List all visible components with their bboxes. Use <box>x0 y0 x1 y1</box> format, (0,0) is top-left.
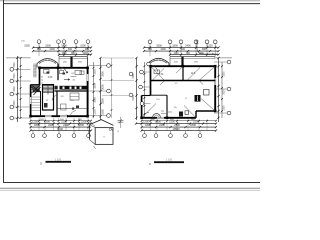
left plan porch glazing line <box>59 57 88 59</box>
svg-text:3300: 3300 <box>14 100 16 106</box>
svg-text:1800: 1800 <box>61 45 67 48</box>
left plan column 4 <box>29 115 32 118</box>
right plan left axis bubble 2 <box>139 85 143 89</box>
right plan right wall window gap <box>214 78 217 85</box>
svg-text:3000: 3000 <box>224 89 226 95</box>
right plan right axis bubble 1 <box>227 60 231 64</box>
left plan top axis bubble 3 <box>62 40 66 44</box>
left plan dark mark right of stair <box>55 86 58 90</box>
left plan bottom axis bubble 5 <box>87 134 91 138</box>
top-right leader annotation <box>197 40 218 55</box>
svg-text:1500: 1500 <box>94 69 97 75</box>
left plan small underline mark <box>71 76 77 78</box>
right plan top axis bubble 6 <box>213 40 217 44</box>
left plan bottom wall <box>31 115 88 117</box>
left plan interior wall vertical upper <box>57 64 59 80</box>
mid strip bubble B <box>129 93 133 97</box>
left plan column 2 <box>86 67 89 70</box>
svg-text:1200: 1200 <box>32 120 38 124</box>
mid strip leader 2 <box>102 95 134 97</box>
detail box front face <box>95 128 113 145</box>
right plan left step wall <box>142 95 151 97</box>
left plan column 6 <box>65 115 68 118</box>
right plan bottom axis bubble 2 <box>154 134 158 138</box>
svg-text:3.30: 3.30 <box>159 74 164 76</box>
right plan bottom-right wall <box>196 110 215 112</box>
svg-text:1500: 1500 <box>24 45 30 48</box>
detail box leader <box>89 121 95 126</box>
svg-text:3000: 3000 <box>94 97 97 103</box>
left plan fixture rect 2 <box>75 71 82 75</box>
right plan bottom wall window gap <box>157 117 164 120</box>
left plan table rect <box>70 93 79 100</box>
mid axis bubble 1 <box>107 64 111 68</box>
left plan column 5 <box>57 67 60 70</box>
svg-text:1500: 1500 <box>81 120 87 124</box>
svg-text:3000: 3000 <box>14 86 16 92</box>
svg-text:2400: 2400 <box>63 123 69 127</box>
right plan chimney dark rect <box>195 95 201 102</box>
svg-text:2400: 2400 <box>159 123 165 127</box>
left plan door arc middle <box>52 96 57 101</box>
svg-text:3300: 3300 <box>133 73 135 79</box>
left plan left axis bubble 1 <box>10 67 14 71</box>
right plan bottom axis bubble 4 <box>184 134 188 138</box>
left plan lower room balcony line <box>57 108 88 110</box>
left plan lower room dark dot <box>72 108 74 110</box>
right plan column 4 <box>214 110 217 113</box>
svg-text:1800: 1800 <box>145 123 151 127</box>
right plan column 1 <box>149 65 152 68</box>
small vdim near box <box>120 117 122 128</box>
left plan stair treads lower run <box>31 97 41 111</box>
svg-text:1200: 1200 <box>94 109 97 115</box>
frame bottom border <box>3 182 260 184</box>
right plan roof hip lines <box>142 66 216 118</box>
svg-text:1500: 1500 <box>14 62 16 68</box>
svg-text:900: 900 <box>85 48 90 51</box>
mid strip leader 3 <box>102 57 134 59</box>
left plan stairwell <box>43 85 54 110</box>
svg-text:2100: 2100 <box>169 120 175 124</box>
mid strip vertical line <box>111 58 113 118</box>
right plan bottom axis bubble 3 <box>169 134 173 138</box>
left plan bottom wall window gap 2 <box>60 115 67 118</box>
left plan ladder symbol rail 1 <box>33 64 35 78</box>
right plan top axis bubble 2 <box>168 40 172 44</box>
svg-text:1500: 1500 <box>44 120 50 124</box>
svg-text:1500: 1500 <box>155 120 161 124</box>
left plan right wall window gap <box>86 74 89 81</box>
mid axis bubble 3 <box>107 114 111 118</box>
left plan fixture rect 3 <box>44 70 50 74</box>
page bottom edge line 1 <box>0 187 260 189</box>
left plan top axis bubble 1 <box>37 40 41 44</box>
break symbol <box>118 119 124 123</box>
left plan top dim row 3 <box>59 54 91 56</box>
left plan north arrow mark <box>64 79 70 81</box>
svg-text:1800: 1800 <box>190 123 196 127</box>
right plan top dim row 2 <box>144 50 219 52</box>
right plan curved bay inner arc <box>150 60 167 63</box>
right plan arched door outer <box>153 114 161 118</box>
right plan corner axis bubble <box>147 62 151 66</box>
right plan right leader top <box>214 57 232 59</box>
right plan right dim line <box>218 58 220 122</box>
detail box foot tick <box>94 146 96 149</box>
left plan curved bay inner arc <box>39 60 56 63</box>
svg-text:1800: 1800 <box>172 45 178 48</box>
svg-text:9000: 9000 <box>57 127 63 131</box>
left plan winder stair fan fill <box>31 85 40 93</box>
mid dim line A <box>100 58 102 120</box>
right plan column 6 <box>166 117 169 120</box>
right plan interior wall vertical <box>182 66 184 80</box>
left plan top wall <box>40 67 88 69</box>
left plan bottom dim row 1 <box>29 123 92 125</box>
left plan lower room dark blob <box>76 106 79 109</box>
left plan left axis bubble 2 <box>10 79 14 83</box>
left plan small dark mark 1 <box>63 73 66 75</box>
right plan left dim line A <box>136 58 138 120</box>
right plan porch top edge <box>170 56 215 58</box>
right plan top axis bubble 5 <box>205 40 209 44</box>
left plan dark blob upper-left room <box>47 72 50 74</box>
page top edge <box>0 0 260 2</box>
left title underline <box>46 161 72 163</box>
right plan top dim row 1 <box>144 47 219 49</box>
right plan interior wall horizontal 2 <box>151 94 168 96</box>
right plan bottom dim row 1 <box>136 123 216 125</box>
svg-text:2400: 2400 <box>48 123 54 127</box>
left plan left dim line 2 <box>20 58 22 118</box>
right plan right wall <box>214 65 216 111</box>
svg-text:600: 600 <box>181 48 186 51</box>
left plan bottom dim row 2 <box>31 126 91 128</box>
right plan dark fixture 1 <box>179 112 183 117</box>
detail box inner bottom edge <box>90 140 96 145</box>
left plan lower room fixture <box>61 104 67 110</box>
svg-text:3300: 3300 <box>102 71 105 77</box>
svg-text:1200: 1200 <box>160 48 166 51</box>
right plan bottom wall <box>142 117 196 119</box>
svg-text:900: 900 <box>37 48 42 51</box>
svg-text:1500: 1500 <box>224 105 226 111</box>
left plan dark blob in stairwell bottom <box>44 103 48 108</box>
svg-text:2100: 2100 <box>61 120 67 124</box>
right plan left dim line B <box>143 62 145 118</box>
svg-text:1500: 1500 <box>102 109 105 115</box>
left plan ladder symbol rail 2 <box>35 64 37 78</box>
right plan porch glazing line <box>170 57 215 59</box>
right title underline <box>154 161 184 163</box>
svg-text:1500: 1500 <box>80 45 86 48</box>
left plan left axis bubble 3 <box>10 92 14 96</box>
svg-text:3000: 3000 <box>133 95 135 101</box>
top-right leader marks <box>196 41 216 55</box>
svg-text:3300: 3300 <box>224 71 226 77</box>
svg-text:1 100: 1 100 <box>166 159 173 162</box>
left plan winder stair fan lines <box>31 85 41 96</box>
detail box top/left edges <box>90 120 114 140</box>
left plan interior wall vertical lower <box>56 91 58 116</box>
page bottom edge line 2 <box>0 189 260 191</box>
right plan interior wall vertical lower <box>166 95 168 118</box>
right plan right axis bubble 2 <box>227 87 231 91</box>
right plan upper-left wall <box>150 65 152 95</box>
left plan left wall interior marks <box>41 77 43 83</box>
left plan bottom axis bubble 2 <box>43 134 47 138</box>
right plan bottom dim row 3 <box>142 130 216 132</box>
left plan top axis bubble 4 <box>74 40 78 44</box>
right plan right axis bubble 3 <box>227 111 231 115</box>
right plan left room door arc <box>144 112 150 118</box>
svg-text:1500: 1500 <box>193 120 199 124</box>
svg-text:12.6: 12.6 <box>191 73 196 75</box>
right plan fixture rect 3 <box>154 70 160 74</box>
right plan door arc top-left <box>152 66 158 72</box>
right plan top axis bubble 4 <box>194 40 198 44</box>
left plan bottom axis bubble 3 <box>57 134 61 138</box>
left plan upper-left wall <box>39 67 41 85</box>
left plan stair side wall <box>40 91 42 116</box>
left plan bottom axis bubble 4 <box>72 134 76 138</box>
mid axis bubble 2 <box>107 89 111 93</box>
right plan porch pier wall <box>181 57 183 67</box>
left plan bottom dim row 3 <box>31 130 91 132</box>
svg-text:3300: 3300 <box>156 45 162 48</box>
left plan upper-right fixture <box>80 71 84 75</box>
left plan right wall <box>87 67 89 116</box>
left plan lower-left wall <box>30 85 32 117</box>
left plan left wall window gap <box>29 97 32 104</box>
right plan bottom axis bubble 1 <box>143 134 147 138</box>
right plan bottom axis bubble 5 <box>198 134 202 138</box>
right plan left axis bubble 3 <box>140 102 144 106</box>
left plan curved bay outer arc <box>37 59 58 64</box>
right plan step wall vertical <box>195 111 197 118</box>
right plan lower-left wall <box>141 96 143 118</box>
left plan top dim row 2 <box>33 50 91 52</box>
svg-text:3000: 3000 <box>102 84 105 90</box>
mid strip leader 1 <box>102 80 134 82</box>
left plan top axis bubble 5 <box>86 40 90 44</box>
left plan left leader top <box>6 57 31 59</box>
svg-text:1800: 1800 <box>78 123 84 127</box>
right plan shaft rect <box>204 90 210 96</box>
left plan dark wall band <box>60 86 88 90</box>
svg-text:1200: 1200 <box>143 120 149 124</box>
svg-text:2400: 2400 <box>185 45 191 48</box>
mid strip bubble A <box>129 72 133 76</box>
frame top border <box>3 3 260 5</box>
right plan bottom dim row 2 <box>142 126 216 128</box>
right plan column 5 <box>182 65 185 68</box>
right plan column 3 <box>140 117 143 120</box>
svg-text:1200: 1200 <box>49 48 55 51</box>
left plan bottom dim row 0 <box>31 120 91 122</box>
svg-text:1800: 1800 <box>34 123 40 127</box>
left plan interior wall horizontal <box>55 90 88 92</box>
left plan porch top edge <box>59 56 88 58</box>
svg-text:3300: 3300 <box>102 98 105 104</box>
detail box inner edge <box>90 125 96 128</box>
left plan top dim row 1 <box>33 47 91 49</box>
svg-text:600: 600 <box>68 48 73 51</box>
detail box corner circle <box>109 128 111 130</box>
svg-text:1100: 1100 <box>62 53 68 55</box>
left plan column 3 <box>86 115 89 118</box>
left plan left axis bubble 5 <box>10 116 14 120</box>
right plan curved bay outer arc <box>148 58 169 63</box>
left plan fixture rect <box>60 71 64 74</box>
svg-text:1200: 1200 <box>82 53 88 55</box>
left plan bottom axis bubble 1 <box>31 134 35 138</box>
left plan ladder rungs <box>33 66 37 75</box>
svg-text:3300: 3300 <box>94 83 97 89</box>
svg-text:10500: 10500 <box>172 127 180 131</box>
detail box corner arc <box>109 128 114 133</box>
left plan column 1 <box>38 67 41 70</box>
svg-text:1100: 1100 <box>174 53 180 55</box>
svg-text:1100: 1100 <box>207 45 213 48</box>
left plan door arc bottom <box>71 111 77 117</box>
mid dim line B <box>93 62 95 118</box>
left plan bottom wall window gap 1 <box>45 115 52 118</box>
right plan arched door inner <box>154 115 159 118</box>
left plan left step wall <box>31 84 40 86</box>
left plan porch pier wall <box>70 57 72 68</box>
left plan left axis bubble 4 <box>10 105 14 109</box>
page background <box>0 0 260 194</box>
left plan top axis bubble 2 <box>57 40 61 44</box>
svg-text:900: 900 <box>202 48 207 51</box>
svg-text:3300: 3300 <box>45 45 51 48</box>
right plan interior wall horizontal <box>151 80 216 82</box>
svg-text:1 100: 1 100 <box>55 158 62 161</box>
right plan top axis bubble 1 <box>148 40 152 44</box>
right plan top dim row 3 <box>170 54 219 56</box>
right plan bottom wall inside marks <box>161 111 172 114</box>
right plan top wall <box>151 65 216 67</box>
left plan door arc top <box>61 68 67 74</box>
svg-text:2400: 2400 <box>174 123 180 127</box>
right plan bottom dim row 0 <box>142 120 216 122</box>
svg-text:900: 900 <box>148 48 153 51</box>
left plan small dark mark 2 <box>67 72 69 74</box>
frame left border <box>3 0 5 183</box>
right plan fixture 2 <box>185 111 189 115</box>
right plan column 2 <box>214 65 217 68</box>
right plan left axis bubble 1 <box>140 70 144 74</box>
svg-text:3300: 3300 <box>14 73 16 79</box>
right plan right dim line 2 <box>221 62 223 118</box>
svg-text:2.80: 2.80 <box>48 77 53 79</box>
right plan top axis bubble 3 <box>179 40 183 44</box>
left plan stair divider <box>47 85 49 95</box>
left plan left dim line <box>16 56 18 122</box>
